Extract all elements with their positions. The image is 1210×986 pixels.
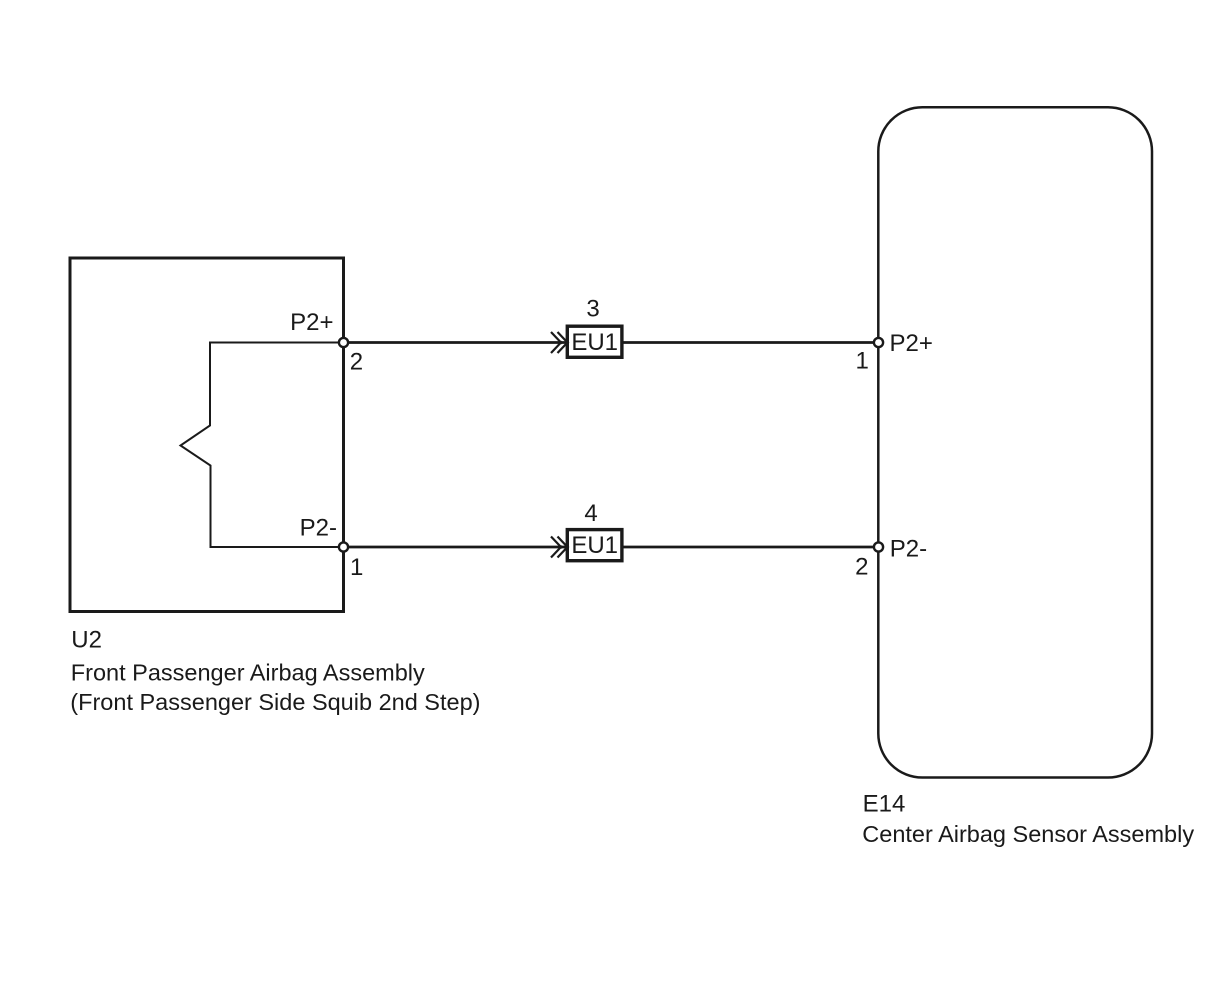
- svg-text:4: 4: [584, 500, 597, 527]
- wire: U2 pin 1 to E14 pin 2 (P2- line): [344, 546, 879, 549]
- connector EU1 box on P2+ wire: [567, 326, 622, 357]
- terminal circle: E14 pin 1 (P2+): [874, 338, 883, 347]
- chevron marks on P2- wire before EU1: [551, 537, 569, 558]
- svg-text:P2+: P2+: [890, 330, 933, 357]
- terminal circle: U2 pin 1 (P2-): [339, 542, 348, 551]
- svg-text:E14: E14: [863, 790, 906, 817]
- svg-text:P2-: P2-: [300, 515, 337, 542]
- svg-text:2: 2: [855, 554, 868, 581]
- connector EU1 box on P2- wire: [567, 530, 622, 561]
- svg-text:U2: U2: [71, 627, 102, 654]
- svg-text:1: 1: [350, 554, 363, 581]
- wire: U2 pin 2 to E14 pin 1 (P2+ line): [344, 341, 879, 344]
- component E14 outline (Center Airbag Sensor Assembly): [878, 107, 1152, 777]
- svg-text:EU1: EU1: [571, 532, 618, 559]
- svg-text:Front Passenger Airbag Assembl: Front Passenger Airbag Assembly: [71, 659, 425, 685]
- terminal circle: E14 pin 2 (P2-): [874, 542, 883, 551]
- squib element (Front Passenger Side Squib 2nd Step) inside U2: [181, 343, 344, 548]
- svg-text:2: 2: [350, 348, 363, 375]
- svg-text:EU1: EU1: [571, 329, 618, 356]
- svg-text:Center Airbag Sensor Assembly: Center Airbag Sensor Assembly: [862, 821, 1194, 847]
- svg-text:1: 1: [856, 348, 869, 375]
- chevron marks on P2+ wire before EU1: [551, 332, 569, 353]
- svg-text:P2+: P2+: [290, 309, 333, 336]
- component U2 outline (Front Passenger Airbag Assembly): [70, 258, 344, 612]
- svg-text:(Front Passenger Side Squib 2n: (Front Passenger Side Squib 2nd Step): [70, 689, 480, 715]
- svg-text:P2-: P2-: [890, 536, 927, 563]
- svg-text:3: 3: [586, 296, 599, 323]
- terminal circle: U2 pin 2 (P2+): [339, 338, 348, 347]
